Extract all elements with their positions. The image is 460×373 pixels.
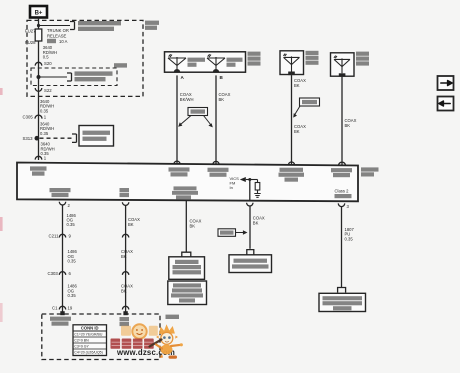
module label AM/FM antenna signal — [279, 168, 305, 182]
wire label COAX BK — [121, 249, 133, 259]
in-line connector on coax — [122, 306, 128, 309]
svg-text:10 A: 10 A — [59, 39, 68, 44]
wire antenna signal to radio — [125, 205, 127, 314]
svg-text:C4=20 (UZ6/UQ5): C4=20 (UZ6/UQ5) — [74, 350, 103, 354]
scan artifact left edge pink strips — [0, 88, 3, 322]
wire B+ down to radio pin 1 — [38, 18, 40, 161]
keyless entry reference box — [169, 257, 205, 280]
DLC entry pad — [338, 288, 346, 293]
svg-text:0.35: 0.35 — [40, 108, 49, 113]
pin A — [174, 69, 185, 80]
in-line connector on coax — [122, 234, 128, 237]
svg-text:C1: C1 — [52, 306, 58, 311]
radio entry pad left — [60, 311, 64, 315]
antenna AM label — [227, 58, 243, 67]
wire label COAX BK — [190, 219, 202, 229]
CONN ID table — [73, 325, 107, 356]
wire coax from antenna 1 — [291, 75, 293, 165]
wire label COAX BK — [128, 217, 140, 227]
wire coax from antenna 2 — [341, 77, 343, 166]
wire keyless entry coax — [185, 200, 187, 252]
svg-text:CONN ID: CONN ID — [81, 326, 99, 331]
module label battery positive voltage — [30, 166, 47, 175]
wire label 1807 PU 0.35 — [345, 227, 355, 241]
connector C211 pin 9 — [49, 234, 72, 239]
exit arc antenna signal — [122, 202, 128, 205]
svg-text:S20: S20 — [44, 61, 52, 66]
svg-text:0.5: 0.5 — [43, 55, 49, 60]
svg-text:B+: B+ — [35, 11, 43, 17]
wire label 3640 RD/WH 0.5 — [43, 45, 57, 59]
connector C303 pin 6 — [48, 271, 72, 276]
fuse block dashed box (rear left) — [27, 20, 143, 96]
radio pin label antenna signal — [120, 317, 130, 326]
radio antenna module main box — [17, 163, 358, 202]
entry arc pin B at module — [213, 161, 219, 164]
wire label COAX BK — [345, 118, 357, 128]
wire label 1486 OG 0.35 — [68, 249, 78, 263]
wire serial data 1807 PU — [341, 207, 343, 288]
connector C1 pin 19 — [52, 306, 73, 311]
domestic variant tag box — [293, 98, 319, 118]
module label AM antenna signal (pin B) — [208, 168, 229, 177]
wire nav coax — [249, 206, 251, 249]
wire label 3640 RD/WH 0.35 — [40, 99, 54, 113]
module label FM repeat signal — [50, 188, 71, 197]
entry arc antenna2 wire at module — [339, 162, 346, 166]
svg-text:BK: BK — [121, 254, 127, 259]
option box label — [114, 63, 127, 67]
antenna element FM multiband — [168, 54, 186, 72]
VICS FM input internal detail — [230, 176, 258, 201]
svg-text:BK: BK — [253, 220, 259, 225]
radio label — [166, 315, 180, 319]
rear glass antenna box 1 — [280, 51, 304, 75]
svg-text:S313: S313 — [23, 136, 34, 141]
svg-text:0.35: 0.35 — [40, 131, 49, 136]
svg-text:BK: BK — [219, 97, 225, 102]
dashed wire to power distribution reference — [40, 137, 73, 139]
wire label COAX BK — [219, 92, 231, 102]
wire coax B — [215, 75, 217, 164]
watermark dzsc — [111, 324, 176, 357]
reference bracket power distribution — [70, 22, 75, 30]
in-line connector on coax — [122, 272, 128, 275]
svg-text:RELEASE: RELEASE — [47, 33, 67, 38]
reference text body wiring schematic — [75, 71, 113, 81]
data link connector reference box — [319, 293, 366, 311]
wire label 1486 OG 0.35 — [68, 284, 78, 298]
svg-text:0.35: 0.35 — [67, 222, 76, 227]
pin B — [213, 69, 224, 80]
reference box power distribution schematic — [79, 126, 114, 147]
wire label COAX BK — [294, 78, 306, 88]
svg-text:BK: BK — [294, 129, 300, 134]
wire coax A — [176, 75, 178, 163]
radio entry pad right — [123, 311, 127, 315]
entry arc pin A at module — [174, 161, 180, 164]
svg-text:BK: BK — [128, 222, 134, 227]
svg-text:FU28: FU28 — [25, 40, 36, 45]
export variant tag box — [218, 229, 248, 237]
svg-text:C211: C211 — [49, 234, 60, 239]
wire label COAX BK — [253, 215, 265, 225]
svg-text:0.35: 0.35 — [68, 259, 77, 264]
exit arc nav coax — [247, 203, 253, 206]
wire label 3640 RD/WH 0.35 — [40, 121, 54, 135]
svg-text:In: In — [230, 185, 233, 190]
export variant tag box — [178, 108, 213, 128]
radio pin 1 entry — [35, 156, 47, 161]
svg-text:FU27: FU27 — [25, 29, 36, 34]
module label antenna signal — [120, 188, 130, 197]
TPMS reference box — [168, 281, 207, 305]
svg-text:S22: S22 — [44, 88, 52, 93]
reference bracket body wiring — [67, 73, 72, 81]
wire label 1486 OG 0.35 — [67, 213, 77, 227]
svg-text:BK: BK — [121, 288, 127, 293]
connector C305 pin 1 — [23, 115, 47, 120]
splice S313 — [23, 136, 40, 141]
svg-text:0.35: 0.35 — [68, 293, 77, 298]
module label Class 2 serial data — [335, 189, 352, 199]
radio pin label FM antenna signal — [50, 317, 71, 326]
svg-text:BK: BK — [294, 83, 300, 88]
svg-text:BK: BK — [190, 224, 196, 229]
option dashed box — [31, 68, 117, 86]
fuse FU27/FU28 TRUNK OR RELEASE 10A — [25, 28, 69, 45]
svg-text:C3=9 GY: C3=9 GY — [74, 344, 89, 348]
wire to power distribution reference — [39, 25, 71, 27]
keyless entry pad — [182, 252, 191, 257]
antenna assembly side label (radio right glass antenna) — [248, 52, 261, 66]
wire label COAX BK/WH — [180, 92, 194, 102]
exit arc pin 2 — [59, 202, 70, 208]
svg-text:C305: C305 — [23, 115, 34, 120]
rear glass antenna 2 label — [356, 52, 369, 66]
module label keyless/TPMS antenna signal — [172, 186, 198, 199]
splice S22 — [35, 88, 52, 93]
rear glass antenna 1 label — [306, 51, 319, 65]
exit arc pin 3 serial data — [338, 203, 349, 209]
antenna element AM — [207, 54, 225, 72]
wire label 3640 RD/WH 0.35 — [41, 142, 55, 156]
fuse block label — [145, 21, 159, 30]
wire FM repeat to radio — [62, 205, 64, 314]
node junction at fuse feed — [37, 24, 40, 27]
svg-text:C2=9 BN: C2=9 BN — [74, 338, 89, 342]
resistor to chassis (internal) — [255, 180, 260, 194]
svg-text:0.35: 0.35 — [345, 236, 354, 241]
svg-text:19: 19 — [68, 306, 73, 311]
entry arc antenna1 wire at module — [288, 162, 294, 165]
svg-text:BK: BK — [345, 123, 351, 128]
power B+ — [30, 6, 47, 18]
nav arrow button left — [438, 97, 454, 111]
svg-text:C303: C303 — [48, 271, 59, 276]
splice S20 — [35, 61, 52, 66]
module label FM antenna signal (antenna2) — [331, 168, 352, 177]
wire label COAX BK — [294, 124, 306, 134]
svg-text:Class 2: Class 2 — [335, 189, 350, 194]
module label FM antenna signal (pin A) — [169, 167, 190, 176]
svg-text:BK/WH: BK/WH — [180, 97, 194, 102]
radio dashed box — [42, 314, 160, 360]
module side label radio antenna module — [361, 167, 379, 176]
svg-text:C1=20 YE/GR/BU: C1=20 YE/GR/BU — [74, 332, 103, 336]
navigation reference box — [229, 255, 272, 273]
nav entry pad — [247, 250, 254, 255]
watermark mascot — [150, 324, 183, 359]
antenna assembly box (FM multiband + AM) — [165, 52, 246, 72]
wire to body wiring reference — [39, 76, 68, 78]
nav arrow button right — [438, 76, 454, 90]
antenna FM label — [188, 58, 206, 67]
node junction inside option box — [37, 75, 41, 79]
reference text power distribution schematic — [78, 21, 121, 31]
wire label COAX BK — [121, 284, 133, 294]
ground chassis symbol — [254, 194, 260, 198]
rear glass antenna box 2 — [331, 53, 355, 77]
reference bracket — [72, 134, 77, 142]
